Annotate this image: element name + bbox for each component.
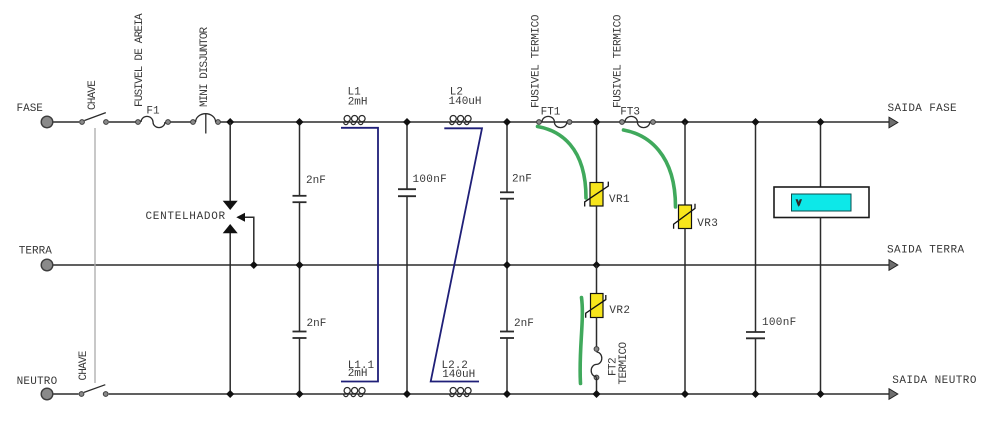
node junction fase x755 xyxy=(752,118,760,126)
node junction neutro x407 xyxy=(403,390,411,398)
terminal NEUTRO xyxy=(41,388,53,400)
voltmeter U1 body xyxy=(774,187,869,218)
svg-text:2mH: 2mH xyxy=(348,97,368,109)
node junction terra x253 xyxy=(250,261,258,269)
terminal FASE xyxy=(41,116,53,128)
node junction fase x299 xyxy=(296,118,304,126)
node junction neutro x685 xyxy=(681,390,689,398)
breaker CB1 MINI DISJUNTOR xyxy=(191,113,221,133)
wire VR1 to terra xyxy=(596,206,598,265)
node junction fase x820 xyxy=(817,118,825,126)
wire fase to VR3 xyxy=(684,122,686,205)
node junction fase x407 xyxy=(403,118,411,126)
terminal TERRA xyxy=(41,259,53,271)
fuse FT2 TERMICO xyxy=(591,347,602,380)
switch S2 CHAVE (neutro) xyxy=(79,385,108,397)
node junction terra x507 xyxy=(503,261,511,269)
voltmeter display xyxy=(792,194,852,211)
wire centelhador upper xyxy=(229,122,231,201)
wire thermal link FT2 green xyxy=(580,298,582,384)
svg-text:VR1: VR1 xyxy=(609,194,630,206)
svg-text:MINI DISJUNTOR: MINI DISJUNTOR xyxy=(199,27,211,107)
node A junction fase x230 xyxy=(226,118,234,126)
spark gap centelhador electrode top xyxy=(223,201,238,210)
svg-text:V: V xyxy=(797,200,802,208)
node junction terra x596 xyxy=(593,261,601,269)
node junction fase x507 xyxy=(503,118,511,126)
node junction fase x596 xyxy=(593,118,601,126)
svg-text:SAIDA FASE: SAIDA FASE xyxy=(888,103,958,115)
svg-text:FT1: FT1 xyxy=(541,107,561,119)
inductor L1.1 2mH xyxy=(344,388,366,397)
svg-text:100nF: 100nF xyxy=(413,174,448,186)
wire centelhador lower xyxy=(229,233,231,394)
wire TERRA bus xyxy=(53,264,889,266)
wire NEUTRO bus xyxy=(53,393,889,395)
wire voltmeter to neutro xyxy=(820,218,822,395)
coupling core L2/L2.2 blue xyxy=(431,128,482,381)
svg-text:FUSIVEL TERMICO: FUSIVEL TERMICO xyxy=(613,14,625,108)
svg-text:100nF: 100nF xyxy=(762,317,797,329)
wire FT2 to neutro xyxy=(596,378,598,395)
svg-text:SAIDA NEUTRO: SAIDA NEUTRO xyxy=(892,375,977,387)
coupling core L1/L1.1 blue xyxy=(341,128,378,382)
svg-text:2mH: 2mH xyxy=(348,368,368,380)
fuse F1 FUSIVEL DE AREIA xyxy=(136,116,171,127)
node junction neutro x755 xyxy=(752,390,760,398)
svg-text:2nF: 2nF xyxy=(514,318,534,330)
node junction neutro x299 xyxy=(296,390,304,398)
capacitor C2 2nF (terra-neutro) xyxy=(293,332,307,395)
inductor L2 140uH xyxy=(450,116,472,125)
arrow saida neutro xyxy=(889,389,898,400)
svg-text:FT3: FT3 xyxy=(620,107,640,119)
node junction neutro x230 xyxy=(226,390,234,398)
arrow saida terra xyxy=(889,260,898,271)
node junction neutro x820 xyxy=(817,390,825,398)
svg-text:TERRA: TERRA xyxy=(19,246,52,258)
varistor VR1 xyxy=(585,182,609,207)
node junction fase x685 xyxy=(681,118,689,126)
svg-text:F1: F1 xyxy=(146,106,160,118)
wire fase to VR1 xyxy=(596,122,598,183)
svg-text:FUSIVEL DE AREIA: FUSIVEL DE AREIA xyxy=(134,13,146,107)
svg-text:TERMICO: TERMICO xyxy=(618,341,630,384)
svg-text:2nF: 2nF xyxy=(307,318,327,330)
capacitor C6 100nF (fase-neutro) xyxy=(746,122,765,394)
capacitor C1 2nF (fase-terra) xyxy=(293,122,307,332)
svg-text:VR3: VR3 xyxy=(697,218,718,230)
wire VR2 to FT2 xyxy=(596,318,598,350)
varistor VR3 xyxy=(674,204,695,229)
capacitor C4 2nF (fase-terra) xyxy=(500,122,514,332)
capacitor C5 2nF (terra-neutro) xyxy=(500,332,514,395)
switch S1 CHAVE (fase) xyxy=(80,113,109,125)
svg-text:140uH: 140uH xyxy=(442,369,475,381)
wire centelhador to terra xyxy=(245,217,254,265)
spark gap centelhador electrode bottom xyxy=(223,224,238,233)
inductor L2.2 140uH xyxy=(450,388,472,397)
wire FASE bus xyxy=(53,121,889,123)
svg-text:CHAVE: CHAVE xyxy=(78,350,90,380)
node junction neutro x596 xyxy=(593,390,601,398)
varistor VR2 xyxy=(586,294,606,318)
wire VR3 to neutro xyxy=(684,229,686,395)
capacitor C3 100nF (fase-neutro) xyxy=(398,122,416,394)
wire thermal link FT3 green xyxy=(624,130,676,207)
svg-text:CENTELHADOR: CENTELHADOR xyxy=(146,211,226,223)
wire switch link xyxy=(94,128,96,383)
svg-text:SAIDA TERRA: SAIDA TERRA xyxy=(887,244,965,256)
svg-text:2nF: 2nF xyxy=(512,174,532,186)
wire thermal link FT1 green xyxy=(538,127,587,199)
wire terra to VR2 xyxy=(596,265,598,294)
node junction terra x299 xyxy=(296,261,304,269)
svg-text:2nF: 2nF xyxy=(306,175,326,187)
svg-text:CHAVE: CHAVE xyxy=(87,80,99,110)
fuse FT3 FUSIVEL TERMICO xyxy=(620,116,656,127)
spark gap centelhador electrode middle xyxy=(236,213,245,222)
svg-text:FASE: FASE xyxy=(17,103,44,115)
svg-text:VR2: VR2 xyxy=(609,305,630,317)
svg-text:FUSIVEL TERMICO: FUSIVEL TERMICO xyxy=(531,14,543,108)
wire fase to voltmeter xyxy=(820,122,822,187)
node junction neutro x507 xyxy=(503,390,511,398)
arrow saida fase xyxy=(889,117,898,128)
inductor L1 2mH xyxy=(344,116,366,125)
svg-text:140uH: 140uH xyxy=(449,96,482,108)
fuse FT1 FUSIVEL TERMICO xyxy=(537,116,572,127)
svg-text:NEUTRO: NEUTRO xyxy=(17,376,58,388)
